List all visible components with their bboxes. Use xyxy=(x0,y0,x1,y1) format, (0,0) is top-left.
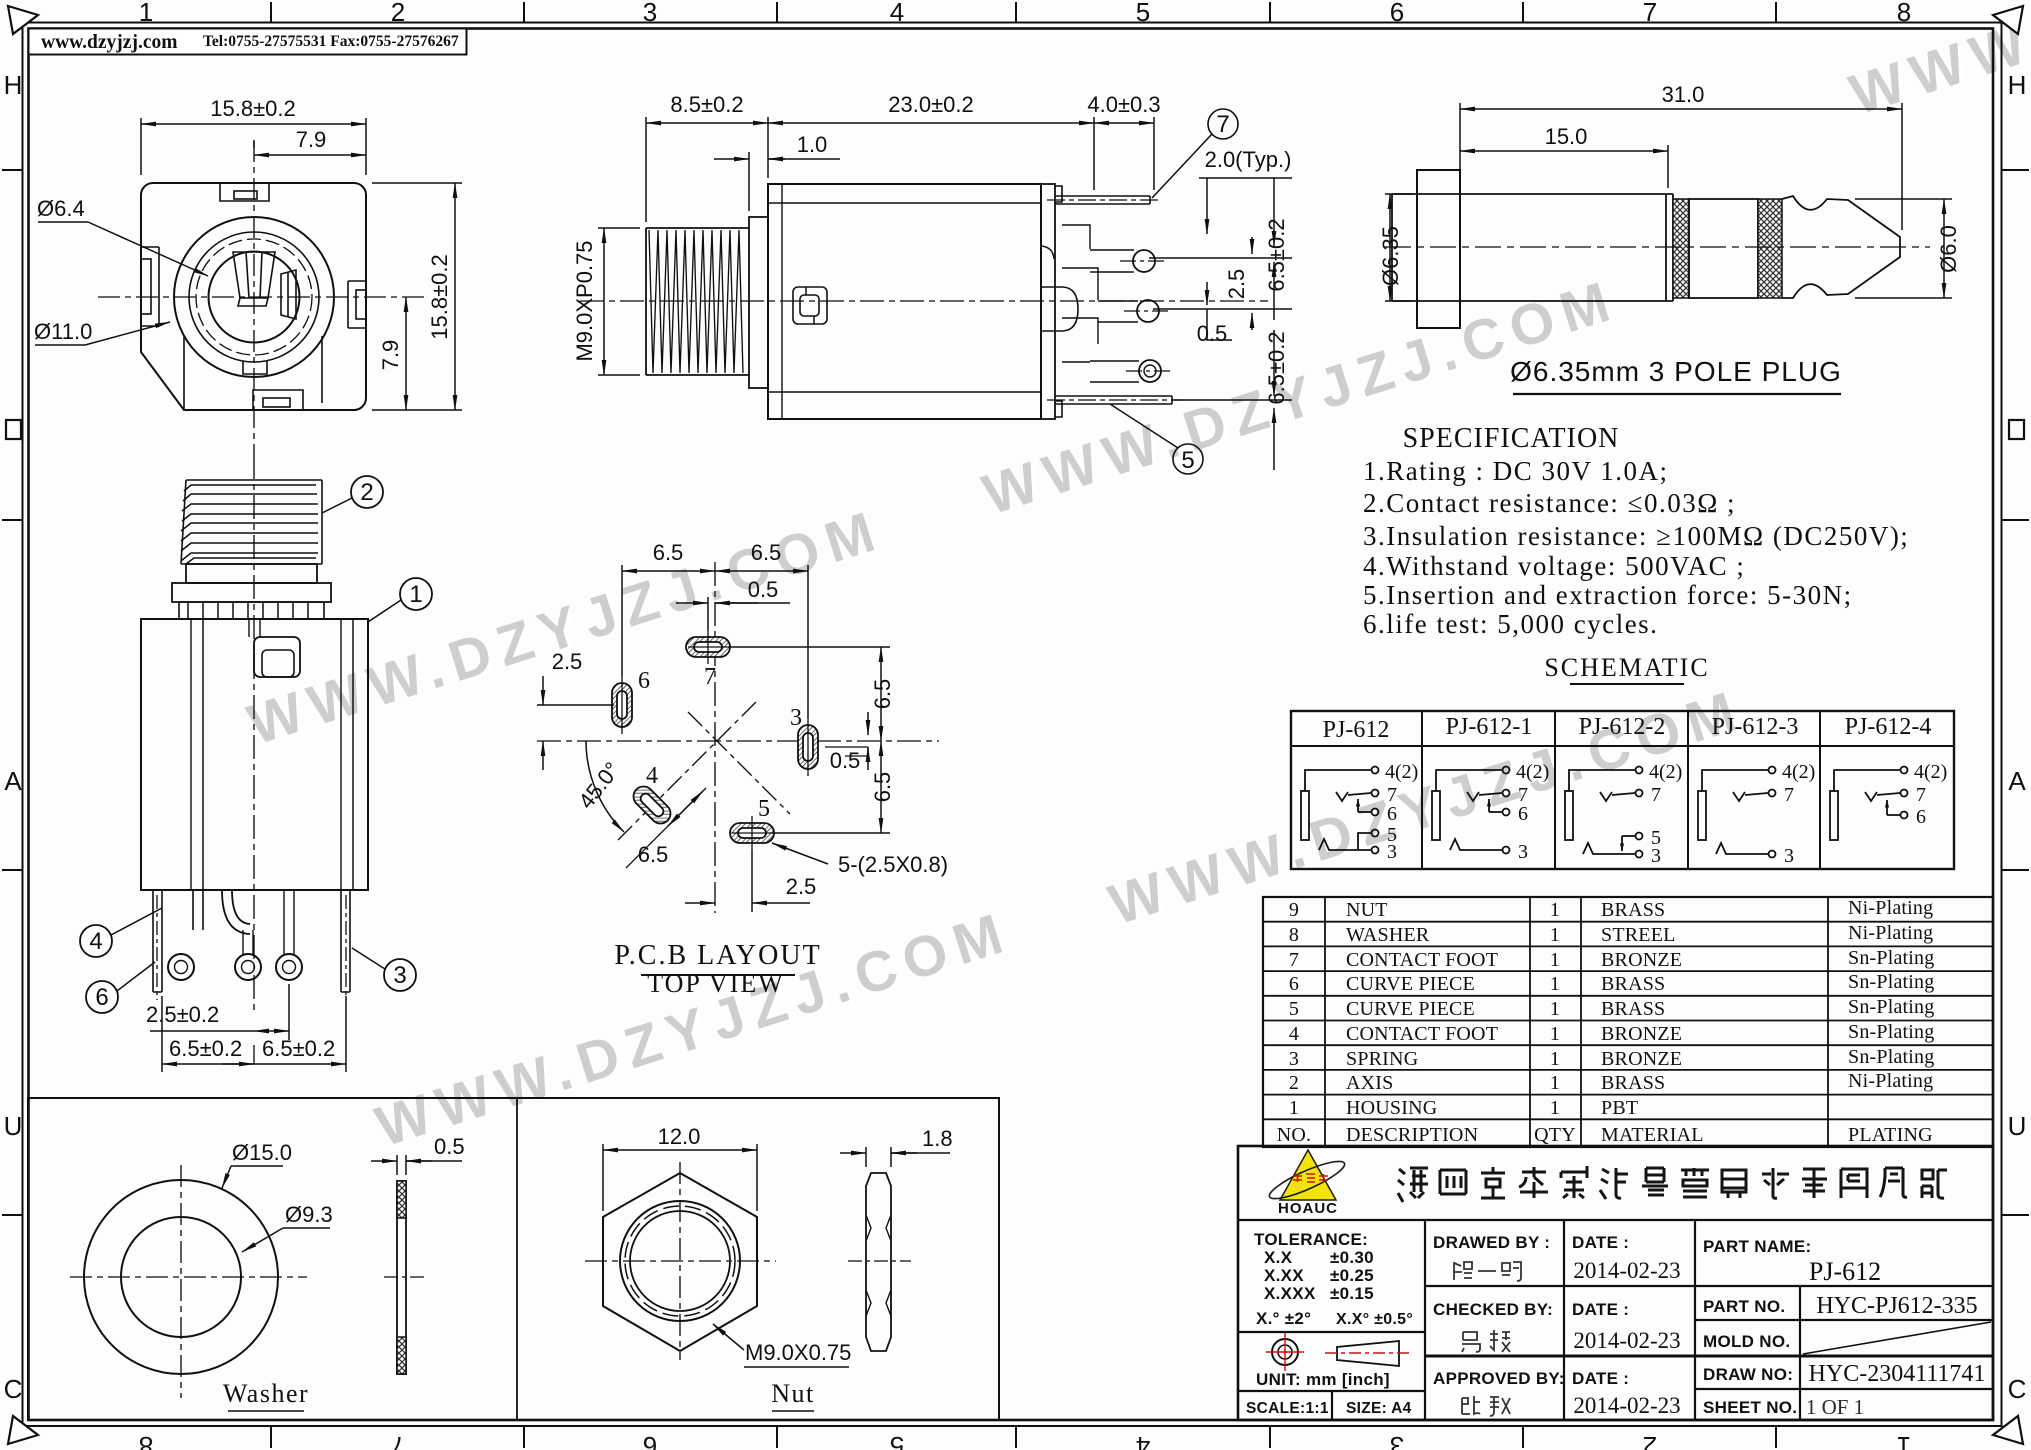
leader Ø6.4 xyxy=(38,222,208,276)
pin stub xyxy=(193,890,203,930)
left zone ticks xyxy=(2,170,22,1215)
pin row step blocks xyxy=(1062,225,1098,362)
svg-text:4(2): 4(2) xyxy=(1516,761,1549,783)
svg-text:CURVE PIECE: CURVE PIECE xyxy=(1346,973,1475,995)
svg-text:6: 6 xyxy=(638,668,650,694)
watermark 5 partial top right xyxy=(1843,0,2031,130)
svg-text:X.XXX: X.XXX xyxy=(1264,1284,1316,1303)
svg-text:4(2): 4(2) xyxy=(1649,761,1682,783)
svg-text:1.Rating : DC 30V 1.0A;: 1.Rating : DC 30V 1.0A; xyxy=(1363,456,1669,486)
svg-text:H: H xyxy=(4,70,23,100)
svg-text:0.5: 0.5 xyxy=(434,1134,465,1159)
svg-text:APPROVED BY:: APPROVED BY: xyxy=(1433,1369,1565,1388)
svg-text:6.5±0.2: 6.5±0.2 xyxy=(169,1036,242,1061)
svg-text:6: 6 xyxy=(1387,803,1397,825)
collar flange xyxy=(172,583,331,602)
svg-text:1.0: 1.0 xyxy=(797,132,828,157)
logo triangle xyxy=(1280,1150,1336,1200)
centerline xyxy=(1385,246,1930,248)
bottom zone ticks xyxy=(271,1425,1776,1448)
nut thread leader M9.0X0.75 xyxy=(713,1324,744,1352)
right mounting tab xyxy=(348,281,366,328)
svg-text:3.Insulation resistance: ≥100M: 3.Insulation resistance: ≥100MΩ (DC250V)… xyxy=(1363,521,1909,551)
bottom dims xyxy=(150,984,346,1072)
svg-text:Nut: Nut xyxy=(771,1379,815,1408)
svg-text:4(2): 4(2) xyxy=(1914,761,1947,783)
dim 6.5 right top xyxy=(715,565,808,718)
svg-text:1: 1 xyxy=(1550,924,1560,946)
schematic cell PJ-612-3 xyxy=(1698,767,1776,858)
centerline vertical xyxy=(253,455,255,1012)
latch detail xyxy=(793,287,827,324)
staff column labels xyxy=(1433,1233,1811,1417)
svg-text:SHEET NO.: SHEET NO. xyxy=(1703,1398,1797,1417)
svg-text:±0.15: ±0.15 xyxy=(1330,1284,1374,1303)
plug tip profile xyxy=(1782,196,1900,298)
svg-text:DATE :: DATE : xyxy=(1572,1369,1629,1388)
svg-text:Ø6.35: Ø6.35 xyxy=(1378,226,1403,286)
dim 0.5 right small xyxy=(825,712,868,770)
svg-text:Tel:0755-27575531 Fax:0755-27: Tel:0755-27575531 Fax:0755-27576267 xyxy=(203,33,459,50)
dim 6.5 6.5 right xyxy=(728,647,890,833)
tip contact trapezoid xyxy=(233,252,275,306)
svg-text:MOLD NO.: MOLD NO. xyxy=(1703,1332,1790,1351)
svg-text:15.0: 15.0 xyxy=(1545,124,1588,149)
svg-text:HOUSING: HOUSING xyxy=(1346,1097,1437,1119)
verticals xyxy=(1424,1220,1426,1420)
svg-text:PJ-612-4: PJ-612-4 xyxy=(1845,714,1932,740)
svg-text:7: 7 xyxy=(1916,784,1926,806)
svg-text:6.5: 6.5 xyxy=(751,540,782,565)
svg-text:X.X° ±0.5°: X.X° ±0.5° xyxy=(1336,1311,1413,1328)
dim 23.0±0.2 xyxy=(768,117,1094,190)
spring contact to 3 xyxy=(1319,839,1371,850)
svg-text:3: 3 xyxy=(1651,845,1661,867)
washer 0.5 dim xyxy=(371,1155,462,1175)
svg-text:7: 7 xyxy=(1643,0,1657,27)
rear cap xyxy=(1041,184,1055,419)
right zone ticks xyxy=(2002,170,2029,1215)
svg-text:23.0±0.2: 23.0±0.2 xyxy=(888,92,973,117)
svg-text:3: 3 xyxy=(393,962,406,989)
schematic cell PJ-612-2 xyxy=(1565,767,1643,858)
dim 15.0 xyxy=(1460,145,1668,188)
washer leader Ø15.0 xyxy=(222,1166,283,1188)
svg-text:PJ-612-1: PJ-612-1 xyxy=(1446,714,1533,740)
svg-text:1: 1 xyxy=(1550,973,1560,995)
branch to 6 xyxy=(1358,811,1371,813)
dim 7.9 top xyxy=(254,141,366,155)
svg-text:5-(2.5X0.8): 5-(2.5X0.8) xyxy=(838,852,948,877)
projection symbol cone xyxy=(1337,1341,1399,1366)
svg-text:U: U xyxy=(2008,1111,2027,1141)
corner triangle top-left xyxy=(8,6,38,34)
svg-text:Sn-Plating: Sn-Plating xyxy=(1848,947,1934,969)
column lines xyxy=(1324,897,1326,1147)
corner triangle bottom-left xyxy=(8,1416,38,1444)
svg-text:6.5: 6.5 xyxy=(653,540,684,565)
svg-text:SCALE:1:1: SCALE:1:1 xyxy=(1246,1400,1329,1417)
svg-text:6: 6 xyxy=(643,1431,657,1450)
dim 15.8±0.2 top xyxy=(141,118,366,175)
top mounting tab xyxy=(220,183,269,201)
svg-text:4(2): 4(2) xyxy=(1782,761,1815,783)
dim 45.0 arc xyxy=(586,741,624,832)
dim Ø6.0 xyxy=(1855,199,1952,298)
round pin 2 xyxy=(1133,250,1155,272)
svg-text:TOP VIEW: TOP VIEW xyxy=(647,969,785,998)
right pin dims xyxy=(1149,178,1292,470)
svg-text:2014-02-23: 2014-02-23 xyxy=(1573,1328,1680,1353)
svg-text:6: 6 xyxy=(95,984,108,1011)
svg-text:STREEL: STREEL xyxy=(1601,924,1676,946)
dashed thread circle xyxy=(196,239,312,355)
svg-text:PLATING: PLATING xyxy=(1848,1124,1933,1146)
svg-text:2: 2 xyxy=(360,479,373,506)
bottom zone numbers (rotated 180) xyxy=(139,1431,1911,1450)
terminal 7 xyxy=(1372,790,1379,797)
svg-text:H: H xyxy=(2008,70,2027,100)
svg-text:QTY: QTY xyxy=(1534,1124,1576,1146)
outer barrel circle xyxy=(174,217,334,377)
main housing body xyxy=(768,184,1041,419)
washer side view xyxy=(371,1155,462,1374)
svg-text:9: 9 xyxy=(1289,899,1299,921)
pad 7 xyxy=(686,637,730,657)
svg-text:BRASS: BRASS xyxy=(1601,899,1665,921)
round pin 4 xyxy=(1139,360,1161,382)
svg-text:2014-02-23: 2014-02-23 xyxy=(1573,1258,1680,1283)
leader 5-(2.5X0.8) xyxy=(772,843,960,864)
svg-text:SPRING: SPRING xyxy=(1346,1048,1418,1070)
svg-text:5: 5 xyxy=(1289,998,1299,1020)
logo red mini text xyxy=(1293,1174,1328,1182)
svg-text:X.XX: X.XX xyxy=(1264,1266,1304,1285)
svg-text:DRAWED BY :: DRAWED BY : xyxy=(1433,1233,1550,1252)
svg-text:6: 6 xyxy=(1518,803,1528,825)
svg-text:Ni-Plating: Ni-Plating xyxy=(1848,922,1933,944)
svg-text:HYC-2304111741: HYC-2304111741 xyxy=(1809,1361,1986,1387)
projection symbol target xyxy=(1266,1333,1304,1371)
jack body outline front xyxy=(141,183,366,410)
round pin 3 xyxy=(1137,300,1159,322)
svg-text:WASHER: WASHER xyxy=(1346,924,1430,946)
svg-text:15.8±0.2: 15.8±0.2 xyxy=(427,254,452,339)
svg-text:1.8: 1.8 xyxy=(922,1126,953,1151)
left zone letters H O A U C xyxy=(4,70,23,100)
nut side view xyxy=(840,1147,950,1351)
callout 3 xyxy=(384,959,416,991)
mold no empty slash xyxy=(1803,1322,1991,1354)
svg-text:Sn-Plating: Sn-Plating xyxy=(1848,1021,1934,1043)
nut 12.0 dim xyxy=(603,1144,757,1211)
plug flange xyxy=(1417,170,1460,328)
wire to 4(2) xyxy=(1305,770,1371,791)
dim M9.0XP0.75 xyxy=(598,228,640,375)
svg-text:1: 1 xyxy=(1550,949,1560,971)
svg-text:M9.0X0.75: M9.0X0.75 xyxy=(745,1340,851,1365)
svg-text:1: 1 xyxy=(1550,899,1560,921)
company row bottom xyxy=(1238,1219,1993,1221)
svg-text:8: 8 xyxy=(139,1431,153,1450)
lug hole right xyxy=(276,954,302,980)
washer front view xyxy=(70,1165,330,1398)
svg-text:A: A xyxy=(4,766,22,796)
svg-text:HYC-PJ612-335: HYC-PJ612-335 xyxy=(1816,1293,1977,1319)
svg-text:Sn-Plating: Sn-Plating xyxy=(1848,1046,1934,1068)
svg-text:M9.0XP0.75: M9.0XP0.75 xyxy=(572,240,597,361)
svg-text:0.5: 0.5 xyxy=(1197,321,1228,346)
svg-text:3: 3 xyxy=(1390,1431,1404,1450)
nut front view xyxy=(585,1144,776,1360)
svg-text:2.5: 2.5 xyxy=(1224,269,1249,300)
pin 3 right lug xyxy=(341,890,350,992)
svg-text:8.5±0.2: 8.5±0.2 xyxy=(670,92,743,117)
svg-text:3: 3 xyxy=(790,705,802,731)
svg-text:4: 4 xyxy=(646,763,658,789)
knurl band 2 xyxy=(1758,199,1782,298)
nut 1.8 dim xyxy=(840,1147,950,1167)
svg-text:6: 6 xyxy=(1916,806,1926,828)
watermark 3 xyxy=(1102,677,1756,941)
svg-text:5: 5 xyxy=(1181,447,1194,474)
approver name 邱敏 xyxy=(1462,1396,1510,1416)
svg-text:PART NO.: PART NO. xyxy=(1703,1297,1785,1316)
svg-text:1: 1 xyxy=(1550,1097,1560,1119)
dim 8.5±0.2 xyxy=(646,117,768,222)
dim 7.9 right xyxy=(405,297,407,410)
svg-text:CURVE PIECE: CURVE PIECE xyxy=(1346,998,1475,1020)
svg-text:6.5±0.2: 6.5±0.2 xyxy=(262,1036,335,1061)
lug hole 6 xyxy=(168,954,194,980)
terminal 6 xyxy=(1372,809,1379,816)
svg-text:7: 7 xyxy=(1784,784,1794,806)
pad 3 xyxy=(798,725,818,769)
pin 7 top flat pin xyxy=(1055,196,1150,204)
svg-text:PJ-612: PJ-612 xyxy=(1323,717,1390,743)
knurl band 1 xyxy=(1673,199,1689,298)
svg-text:SCHEMATIC: SCHEMATIC xyxy=(1544,653,1709,682)
svg-text:1: 1 xyxy=(1550,998,1560,1020)
centerline horizontal xyxy=(98,296,425,298)
inner barrel circle xyxy=(189,232,319,362)
svg-text:U: U xyxy=(4,1111,23,1141)
callout 5 xyxy=(1110,404,1203,474)
dim 15.8±0.2 right xyxy=(372,183,462,410)
insulator ring xyxy=(1689,199,1758,298)
svg-text:1: 1 xyxy=(1550,1048,1560,1070)
svg-text:3: 3 xyxy=(1289,1048,1299,1070)
callout 4 xyxy=(80,925,112,957)
svg-text:2: 2 xyxy=(1643,1431,1657,1450)
svg-text:P.C.B LAYOUT: P.C.B LAYOUT xyxy=(614,940,821,971)
svg-text:45.0°: 45.0° xyxy=(573,757,624,813)
schematic cell PJ-612-1 xyxy=(1432,767,1510,854)
dates and part values xyxy=(1573,1257,1985,1419)
svg-text:4(2): 4(2) xyxy=(1385,761,1418,783)
svg-text:6.5: 6.5 xyxy=(638,842,669,867)
centerline vertical xyxy=(714,562,716,913)
svg-text:1: 1 xyxy=(1897,1431,1911,1450)
corner triangle top-right xyxy=(1993,6,2023,34)
svg-text:2.Contact resistance: ≤0.03Ω ;: 2.Contact resistance: ≤0.03Ω ; xyxy=(1363,488,1736,518)
svg-text:Ø11.0: Ø11.0 xyxy=(34,319,92,344)
contact V to 7 xyxy=(1336,792,1371,801)
boss silhouette lines xyxy=(183,336,185,410)
threaded bushing side xyxy=(646,228,749,375)
svg-text:Washer: Washer xyxy=(223,1379,309,1408)
svg-text:7: 7 xyxy=(391,1431,405,1450)
plug body shaft xyxy=(1460,194,1673,301)
svg-text:PJ-612-2: PJ-612-2 xyxy=(1579,714,1666,740)
svg-text:NO.: NO. xyxy=(1277,1124,1312,1146)
terminal 5 wire xyxy=(1372,830,1379,837)
svg-text:DESCRIPTION: DESCRIPTION xyxy=(1346,1124,1478,1146)
svg-text:6.5±0.2: 6.5±0.2 xyxy=(1264,218,1289,291)
watermark 2 xyxy=(976,267,1630,531)
svg-text:Ø6.35mm 3 POLE PLUG: Ø6.35mm 3 POLE PLUG xyxy=(1510,356,1842,387)
svg-text:3: 3 xyxy=(1518,841,1528,863)
svg-text:2.5: 2.5 xyxy=(552,649,583,674)
bottom mounting tab xyxy=(253,390,303,410)
svg-text:BRASS: BRASS xyxy=(1601,973,1665,995)
svg-text:www.dzyjzj.com: www.dzyjzj.com xyxy=(41,32,177,53)
svg-text:2: 2 xyxy=(391,0,405,27)
dim 6.5 diagonal xyxy=(626,788,706,868)
bore circle xyxy=(209,252,300,343)
svg-text:31.0: 31.0 xyxy=(1662,82,1705,107)
top zone numbers xyxy=(139,0,1911,27)
svg-text:6.5: 6.5 xyxy=(870,772,895,803)
dim 4.0±0.3 xyxy=(1094,117,1154,190)
dim 2.0 typ leader xyxy=(1199,178,1292,234)
svg-text:1: 1 xyxy=(1289,1097,1299,1119)
housing body xyxy=(141,619,368,890)
svg-text:6.5±0.2: 6.5±0.2 xyxy=(1264,331,1289,404)
drawer name 陈一鸣 xyxy=(1454,1262,1521,1281)
thread zigzag xyxy=(649,230,743,373)
svg-text:0.5: 0.5 xyxy=(830,748,861,773)
neck xyxy=(186,564,317,583)
svg-text:8: 8 xyxy=(1289,924,1299,946)
svg-text:4: 4 xyxy=(1136,1431,1150,1450)
callout 1 xyxy=(400,578,432,610)
svg-text:4: 4 xyxy=(89,928,102,955)
terminal 4(2) xyxy=(1372,767,1379,774)
svg-text:A: A xyxy=(2008,766,2026,796)
pin 4 left lug xyxy=(153,890,162,992)
callout 2 xyxy=(351,476,383,508)
svg-text:X.° ±2°: X.° ±2° xyxy=(1256,1309,1311,1328)
pin 5 bottom flat pin xyxy=(1055,396,1172,404)
svg-text:Sn-Plating: Sn-Plating xyxy=(1848,971,1934,993)
schematic cell PJ-612-4 xyxy=(1830,767,1908,841)
svg-text:3: 3 xyxy=(643,0,657,27)
svg-text:4: 4 xyxy=(890,0,904,27)
svg-text:2.5: 2.5 xyxy=(786,874,817,899)
svg-text:6: 6 xyxy=(1390,0,1404,27)
svg-text:1: 1 xyxy=(1550,1072,1560,1094)
svg-text:6.5: 6.5 xyxy=(870,679,895,710)
dim 1.0 xyxy=(714,152,840,211)
plug shaft left stub xyxy=(1392,194,1460,301)
pad 6 xyxy=(612,683,632,727)
svg-text:TOLERANCE:: TOLERANCE: xyxy=(1254,1230,1368,1249)
svg-text:NUT: NUT xyxy=(1346,899,1388,921)
svg-text:2.5±0.2: 2.5±0.2 xyxy=(146,1002,219,1027)
svg-text:CONTACT FOOT: CONTACT FOOT xyxy=(1346,1023,1498,1045)
svg-text:3: 3 xyxy=(1784,845,1794,867)
svg-text:1: 1 xyxy=(409,581,422,608)
svg-text:UNIT: mm [inch]: UNIT: mm [inch] xyxy=(1256,1370,1390,1389)
bore bottom notch xyxy=(243,361,267,374)
svg-text:5: 5 xyxy=(1136,0,1150,27)
svg-text:1: 1 xyxy=(1550,1023,1560,1045)
svg-text:6.life test: 5,000 cycles.: 6.life test: 5,000 cycles. xyxy=(1363,609,1658,639)
corner triangle bottom-right xyxy=(1993,1416,2023,1444)
svg-text:2.0(Typ.): 2.0(Typ.) xyxy=(1205,147,1292,172)
svg-text:8: 8 xyxy=(1897,0,1911,27)
svg-text:7.9: 7.9 xyxy=(378,340,403,371)
svg-text:BRONZE: BRONZE xyxy=(1601,1048,1682,1070)
svg-text:CONTACT FOOT: CONTACT FOOT xyxy=(1346,949,1498,971)
right zone letters H O A U C xyxy=(2008,70,2027,100)
svg-text:WWW.DZYJZJ.COM: WWW.DZYJZJ.COM xyxy=(369,900,1019,1160)
svg-text:7.9: 7.9 xyxy=(296,127,327,152)
svg-text:PART NAME:: PART NAME: xyxy=(1703,1237,1811,1256)
svg-text:5: 5 xyxy=(758,796,770,822)
watermark 4 xyxy=(369,899,1023,1163)
dim Ø6.35 xyxy=(1385,194,1412,301)
internal contact spring (hidden curve) xyxy=(1041,246,1054,259)
svg-text:7: 7 xyxy=(1216,111,1229,138)
callout 7 xyxy=(1152,109,1238,198)
terminal 3 xyxy=(1372,847,1379,854)
dim 6.5 left top xyxy=(622,565,715,676)
svg-text:PJ-612: PJ-612 xyxy=(1809,1257,1881,1286)
dim 31.0 xyxy=(1460,103,1902,230)
dim 0.5 top xyxy=(676,597,790,630)
leader Ø11.0 xyxy=(35,322,170,345)
svg-text:3: 3 xyxy=(1387,841,1397,863)
svg-text:BRONZE: BRONZE xyxy=(1601,1023,1682,1045)
svg-text:4.0±0.3: 4.0±0.3 xyxy=(1087,92,1160,117)
centerline axis xyxy=(580,300,1268,302)
bushing thread elevation xyxy=(181,480,322,564)
lug hole center xyxy=(235,954,261,980)
svg-text:BRASS: BRASS xyxy=(1601,998,1665,1020)
svg-text:4: 4 xyxy=(1289,1023,1299,1045)
side contact seen in bore xyxy=(281,270,296,319)
svg-text:1: 1 xyxy=(139,0,153,27)
checker name 马跃 xyxy=(1462,1330,1510,1352)
centerline horizontal xyxy=(537,740,939,742)
left mounting tab xyxy=(141,247,159,326)
schematic cell PJ-612 xyxy=(1301,767,1379,854)
svg-text:BRONZE: BRONZE xyxy=(1601,949,1682,971)
svg-text:Ø6.0: Ø6.0 xyxy=(1936,225,1961,273)
svg-text:12.0: 12.0 xyxy=(658,1124,701,1149)
centerline vertical xyxy=(253,140,255,455)
tolerance cell texts xyxy=(1246,1230,1413,1417)
svg-text:PBT: PBT xyxy=(1601,1097,1638,1119)
svg-text:DATE :: DATE : xyxy=(1572,1233,1629,1252)
washer leader Ø9.3 xyxy=(242,1228,330,1252)
svg-text:7: 7 xyxy=(1651,784,1661,806)
svg-text:C: C xyxy=(2008,1374,2027,1404)
svg-text:1 OF 1: 1 OF 1 xyxy=(1806,1395,1864,1419)
diagonal centerline 45 xyxy=(618,700,758,840)
